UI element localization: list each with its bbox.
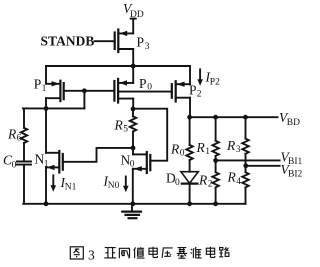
svg-text:BI2: BI2 [288, 170, 303, 180]
wire VBI2 [246, 165, 280, 167]
wire down to N1 drain [45, 108, 47, 152]
label N0 [121, 153, 135, 170]
node R3-R4 junction [243, 163, 248, 168]
svg-text:N0: N0 [108, 181, 120, 191]
label C0 [3, 153, 17, 171]
transistor P2 [172, 81, 190, 101]
label R0 [170, 142, 185, 159]
label VDD [123, 1, 144, 20]
label IP2 [205, 70, 221, 88]
svg-text:R: R [226, 138, 236, 153]
svg-text:R: R [198, 173, 208, 188]
current arrow IP2 [197, 69, 203, 85]
label N1 [35, 152, 49, 170]
svg-text:BD: BD [287, 118, 300, 128]
label D0 [166, 171, 180, 188]
node gate tie junction [82, 88, 87, 93]
label P2 [189, 83, 202, 100]
svg-text:P: P [189, 83, 197, 98]
node P3 drain junction [131, 64, 136, 69]
label R3 [226, 138, 241, 155]
label R5 [114, 118, 129, 135]
svg-text:P2: P2 [210, 77, 220, 87]
transistor N1 [46, 151, 63, 173]
wire P1 drain down [45, 98, 47, 108]
label VBD [279, 110, 300, 128]
svg-text:0: 0 [180, 149, 185, 159]
wire P0 drain down [132, 99, 134, 109]
wire P1 source [46, 66, 60, 84]
wire N0 drain up [132, 148, 134, 155]
svg-text:1: 1 [205, 147, 210, 157]
wire gate line P0-P2 [118, 91, 172, 93]
label IN0 [103, 174, 120, 191]
wire STANDB to P3 gate [95, 40, 115, 42]
wire N0 source down [132, 169, 134, 204]
resistor R3 [242, 117, 248, 166]
wire gate-drain tie [83, 91, 85, 109]
resistor R6 [21, 108, 27, 160]
node R3 top [243, 115, 248, 120]
node R1-R2 junction [213, 158, 218, 163]
svg-text:2: 2 [208, 180, 213, 190]
node P0 drain / R5 top [131, 107, 136, 112]
current arrow IN0 [123, 177, 129, 193]
svg-text:6: 6 [17, 134, 22, 144]
svg-text:DD: DD [130, 10, 144, 20]
wire N1 gate [63, 148, 133, 162]
node N0 source at ground rail [130, 201, 135, 206]
svg-text:R: R [114, 118, 124, 133]
svg-text:R: R [227, 170, 237, 185]
wire P0 source up [132, 66, 134, 83]
svg-text:P: P [137, 35, 145, 50]
wire P1 drain node horizontal [23, 107, 85, 109]
label IN1 [60, 175, 77, 192]
svg-text:0: 0 [12, 160, 17, 170]
svg-text:3: 3 [88, 247, 95, 262]
label R1 [196, 140, 211, 157]
svg-text:3: 3 [236, 145, 241, 155]
wire gate line P1-P0 [64, 90, 115, 92]
svg-text:3: 3 [145, 42, 150, 52]
label P0 [139, 76, 152, 93]
transistor P1 [46, 81, 64, 101]
label P3 [137, 35, 150, 53]
resistor R0 [186, 117, 192, 172]
svg-text:P: P [34, 77, 42, 92]
diode D0 [181, 172, 198, 204]
resistor R2 [212, 160, 218, 203]
svg-text:0: 0 [147, 83, 152, 93]
wire VBD rail [189, 116, 278, 118]
caption text 亚阈值电压基准电路 [104, 247, 229, 258]
label VBI2 [281, 162, 303, 180]
svg-text:R: R [170, 142, 180, 157]
transistor N0 [133, 152, 150, 173]
wire P2 source up [189, 66, 191, 84]
svg-text:STANDB: STANDB [41, 34, 95, 49]
caption figure number 图3 [70, 247, 83, 259]
resistor R4 [242, 166, 248, 204]
label R4 [227, 170, 242, 187]
node R5 bottom / N0 drain [131, 146, 136, 151]
power VDD terminal [131, 19, 136, 34]
transistor P3 [115, 30, 134, 53]
node D0 at ground rail [187, 201, 192, 206]
current arrow IN1 [51, 175, 57, 191]
resistor R5 [130, 109, 136, 148]
wire VBI1 [216, 159, 280, 161]
label R2 [198, 173, 213, 190]
wire P2 drain down [189, 98, 191, 118]
node R1 top [213, 115, 218, 120]
node N1 source at ground rail [44, 201, 49, 206]
wire top rail [46, 65, 190, 67]
svg-text:0: 0 [175, 178, 180, 188]
wire N1 source down [45, 167, 47, 203]
wire P3 drain down [132, 49, 134, 66]
svg-text:BI1: BI1 [288, 157, 303, 167]
label VBI1 [281, 150, 303, 168]
resistor R1 [212, 117, 218, 160]
svg-text:2: 2 [197, 90, 202, 100]
svg-text:1: 1 [42, 84, 47, 94]
svg-text:N1: N1 [65, 182, 77, 192]
svg-text:1: 1 [44, 159, 49, 169]
wire N0 gate [133, 109, 167, 161]
svg-text:5: 5 [123, 124, 128, 134]
node R2 at ground rail [213, 201, 218, 206]
svg-text:P: P [139, 76, 147, 91]
label R6 [7, 127, 22, 144]
wire ground rail [23, 203, 245, 205]
node P2 drain at rail [187, 115, 192, 120]
ground [122, 204, 141, 218]
transistor P0 [114, 79, 133, 103]
svg-text:4: 4 [236, 177, 241, 187]
svg-text:R: R [7, 127, 17, 142]
node P1 drain junction [44, 106, 49, 111]
svg-text:R: R [196, 140, 206, 155]
label P1 [34, 77, 47, 95]
capacitor C0 [17, 162, 31, 204]
svg-text:0: 0 [130, 160, 135, 170]
